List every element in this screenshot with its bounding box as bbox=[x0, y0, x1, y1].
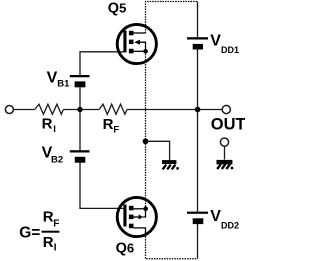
svg-text:DD2: DD2 bbox=[221, 221, 239, 231]
svg-text:F: F bbox=[53, 218, 59, 229]
svg-text:G=: G= bbox=[19, 224, 40, 241]
svg-text:R: R bbox=[42, 116, 53, 133]
svg-text:R: R bbox=[43, 209, 54, 226]
svg-text:F: F bbox=[113, 125, 119, 136]
svg-text:B2: B2 bbox=[51, 154, 63, 165]
svg-text:Q6: Q6 bbox=[116, 241, 135, 257]
svg-text:B1: B1 bbox=[57, 79, 70, 90]
svg-text:R: R bbox=[103, 116, 114, 133]
svg-text:I: I bbox=[53, 124, 56, 135]
svg-text:R: R bbox=[43, 234, 54, 251]
svg-text:V: V bbox=[47, 69, 58, 86]
svg-text:DD1: DD1 bbox=[221, 45, 239, 55]
svg-text:I: I bbox=[54, 243, 57, 254]
svg-text:Q5: Q5 bbox=[108, 0, 127, 16]
svg-text:OUT: OUT bbox=[211, 116, 245, 134]
svg-text:V: V bbox=[210, 208, 221, 225]
svg-text:V: V bbox=[210, 33, 221, 50]
